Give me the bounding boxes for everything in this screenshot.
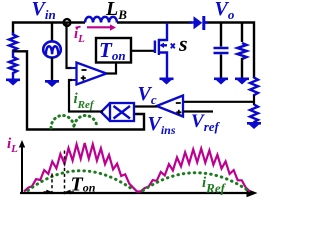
wire feedback tap	[183, 95, 254, 105]
marker Ton dashed line2	[64, 151, 66, 195]
arrow Ton left	[44, 191, 50, 193]
axis x	[20, 192, 249, 194]
wire divider tap Vins	[13, 51, 144, 129]
ground AC source	[45, 80, 59, 87]
ac source Vin	[43, 41, 61, 57]
block Ton one-shot	[96, 38, 131, 63]
curve iRef envelope plot dotted hump2	[143, 173, 248, 191]
capacitor Co	[220, 24, 222, 47]
resistor Rf2 feedback lower	[250, 105, 258, 123]
marker Ton dashed line1	[51, 174, 53, 195]
ground load resistor	[235, 78, 249, 85]
wire comparator plus stub	[71, 79, 78, 81]
wire AC source top	[51, 23, 53, 42]
ground capacitor	[214, 78, 228, 85]
marker x switch	[171, 44, 175, 49]
diode D1	[194, 16, 203, 29]
wire Vc error amp output to multiplier	[134, 105, 157, 107]
ground feedback divider	[247, 122, 261, 129]
waveform iL sawtooth magenta	[24, 143, 250, 192]
resistor R1 (Vin divider upper)	[9, 33, 17, 53]
wire AC source bottom	[51, 58, 53, 81]
op-amp comparator U1	[77, 63, 107, 85]
axis y	[21, 147, 23, 193]
arrow iL current	[87, 26, 110, 28]
wire node to comparator minus	[67, 24, 73, 69]
resistor R2 (Vin divider lower)	[9, 52, 17, 80]
svg-text:s: s	[178, 31, 188, 56]
resistor RL load	[241, 24, 243, 43]
arrow Ton right	[70, 191, 75, 193]
multiplier X block	[101, 103, 134, 121]
node current-sense junction	[64, 19, 71, 26]
wire Ton to gate	[131, 50, 154, 52]
ground MOSFET source	[160, 78, 174, 85]
wire top rail left segment	[13, 23, 85, 36]
ground left divider	[6, 79, 20, 86]
wire comparator minus stub	[71, 67, 78, 69]
wire Vref input	[183, 110, 213, 112]
wire multiplier output iRef to comparator plus	[69, 80, 103, 112]
wire comparator output to Ton	[107, 63, 117, 74]
wire top rail right segment	[205, 23, 254, 79]
resistor Rf1 feedback upper	[250, 77, 258, 96]
op-amp error amplifier U2	[157, 96, 184, 117]
transistor Q1 MOSFET switch	[155, 23, 167, 78]
wire top rail mid segment	[117, 21, 192, 23]
inductor LB	[85, 17, 117, 23]
curve iRef envelope plot dotted hump1	[28, 171, 134, 191]
curve iRef envelope sketch dotted	[51, 116, 97, 129]
